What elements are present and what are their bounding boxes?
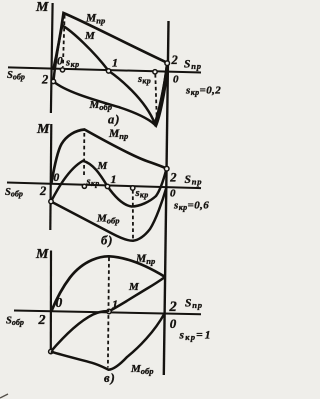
svg-text:М: М [97, 160, 109, 172]
circle below origin chart a [51, 79, 55, 83]
svg-text:Sпр: Sпр [185, 174, 203, 187]
svg-text:0: 0 [54, 172, 60, 184]
x axis chart v [14, 311, 201, 315]
svg-text:1: 1 [111, 172, 117, 186]
svg-text:sкр: sкр [135, 188, 149, 200]
circle at s_kr on axis chart a [60, 68, 64, 72]
circle below origin chart b [49, 199, 53, 203]
svg-text:0: 0 [170, 316, 177, 331]
svg-text:sкр=1: sкр=1 [179, 330, 213, 343]
M axis (vertical) chart v [50, 251, 52, 350]
curve M_pr chart b [51, 130, 165, 184]
svg-text:а): а) [108, 113, 120, 127]
svg-text:2: 2 [171, 53, 178, 67]
dashed s_kr_obr line chart a [155, 74, 157, 120]
svg-text:sкр: sкр [137, 74, 151, 86]
svg-text:1: 1 [112, 56, 118, 70]
svg-text:Sобр: Sобр [5, 187, 23, 199]
svg-text:0: 0 [57, 56, 63, 68]
svg-text:2: 2 [41, 73, 48, 87]
curve M (resultant) chart v [51, 277, 165, 352]
curve M_obr chart b [51, 188, 166, 241]
svg-text:0: 0 [170, 188, 176, 200]
curve M_obr chart a [53, 73, 166, 126]
x axis chart b [7, 183, 201, 189]
dashed s_kr line chart b [83, 133, 85, 177]
svg-text:sкр: sкр [86, 177, 100, 189]
svg-text:Sобр: Sобр [7, 70, 25, 82]
circle at s=1 chart a [106, 69, 110, 73]
shared right vertical line s=2 [164, 21, 169, 375]
svg-text:2: 2 [169, 299, 177, 315]
svg-text:Sобр: Sобр [6, 316, 24, 328]
svg-text:М: М [128, 281, 140, 293]
circle at s_kr_obr on axis chart a [153, 70, 157, 74]
svg-text:0: 0 [56, 295, 63, 310]
circle at s=1 chart b [105, 184, 109, 188]
curve M (resultant) chart b [51, 161, 166, 207]
svg-text:0: 0 [173, 74, 179, 86]
circle at s_kr on axis chart b [82, 184, 86, 188]
x axis chart a [8, 67, 201, 72]
circle at s=1 chart v [107, 309, 111, 313]
circle at s=2 end chart a [165, 61, 170, 66]
svg-text:М: М [35, 247, 49, 262]
M axis (vertical) chart a [51, 3, 53, 113]
M axis (vertical) chart b [50, 124, 51, 230]
svg-text:М: М [84, 30, 96, 42]
circle at s_kr_obr chart b [131, 186, 135, 190]
svg-text:1: 1 [112, 297, 118, 311]
curve M_pr chart v [52, 256, 165, 311]
curve M (resultant) chart a [53, 26, 167, 124]
svg-text:М: М [36, 122, 50, 137]
dashed s=1 line chart v [108, 258, 109, 368]
dashed s_kr_obr line chart b [132, 190, 134, 239]
svg-text:sкр=0,2: sкр=0,2 [185, 85, 221, 98]
svg-text:sкр=0,6: sкр=0,6 [173, 200, 209, 213]
dashed s_kr line chart a [63, 15, 65, 67]
corner mark bottom left [0, 394, 8, 398]
svg-text:2: 2 [38, 313, 46, 328]
svg-text:sкр: sкр [65, 58, 80, 70]
svg-text:Sпр: Sпр [185, 298, 203, 311]
circle at s=2 end chart b [164, 166, 169, 171]
curve M_obr chart v [51, 314, 165, 370]
svg-text:б): б) [101, 234, 113, 248]
svg-text:М: М [35, 0, 49, 15]
svg-text:2: 2 [169, 171, 176, 185]
circle at bottom of M axis chart v [49, 349, 53, 353]
curve M_pr chart a [53, 13, 166, 70]
svg-text:в): в) [104, 371, 116, 385]
merged steep rise at V bottom chart a [155, 66, 167, 125]
svg-text:Sпр: Sпр [184, 59, 202, 72]
svg-text:2: 2 [39, 184, 46, 198]
